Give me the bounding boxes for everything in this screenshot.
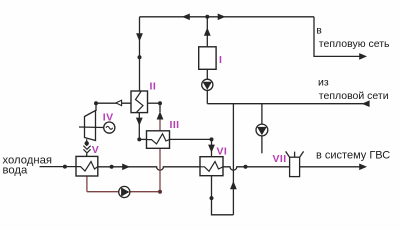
wire main line VI to VII with hop over circulation riser: [223, 167, 290, 170]
node condensate corner: [137, 137, 141, 141]
wire VI bottom loop: [212, 176, 234, 215]
chevron arrow 1 into V: [83, 146, 90, 150]
wire pump1 drop from boiler I to network line corner: [206, 69, 208, 103]
arrow right on main line: [122, 164, 130, 171]
svg-text:вода: вода: [3, 164, 29, 176]
arrow up into riser from III: [157, 111, 164, 119]
chevron arrow 2 into V: [83, 149, 90, 153]
boiler I box: [199, 47, 216, 70]
wire cold water inlet: [40, 166, 77, 168]
node header junction: [205, 15, 209, 19]
wire red condensate bottom run through pump3: [87, 191, 160, 193]
svg-text:V: V: [92, 144, 99, 156]
heat exchanger V coil: [76, 162, 98, 172]
arrow from heating network: [362, 100, 370, 107]
valve open arrow on II left port: [116, 100, 122, 105]
pump P3: [119, 186, 130, 197]
heat exchanger VI coil: [200, 162, 223, 172]
arrow down into II: [136, 33, 143, 41]
heat exchanger III box: [147, 131, 170, 149]
generator circle: [104, 122, 115, 133]
heat exchanger V box: [76, 156, 98, 176]
wire circulation riser x=233.4: [232, 104, 234, 215]
node III to VI corner: [210, 137, 214, 141]
arrow left on header: [182, 14, 190, 21]
heat exchanger II box: [131, 91, 148, 113]
node on II riser: [138, 55, 142, 59]
node cold water inlet: [63, 165, 67, 169]
wire riser from boiler I up to header: [206, 17, 208, 47]
svg-text:III: III: [170, 119, 180, 131]
heat exchanger II coil: [136, 92, 144, 113]
wire from network (line y=103.7): [207, 103, 366, 105]
wire riser from header down to heat exchanger II: [139, 17, 141, 91]
wire red condensate drop from V: [86, 176, 88, 192]
pump P1: [202, 79, 213, 90]
wire riser top segment above III: [159, 103, 161, 112]
svg-text:II: II: [150, 81, 157, 93]
node II right port junction: [158, 101, 162, 105]
pump P2: [256, 124, 268, 136]
wire II condensate drop: [138, 113, 140, 140]
svg-text:тепловую сеть: тепловую сеть: [319, 38, 390, 50]
svg-text:IV: IV: [103, 112, 114, 124]
arrow down into VI: [208, 145, 215, 153]
wire red riser below III: [159, 148, 161, 191]
node before VII: [244, 165, 248, 169]
wire top header line: [140, 16, 315, 18]
svg-text:в: в: [316, 25, 322, 37]
arrow down II condensate: [136, 118, 143, 126]
wire turbine exhaust to V: [86, 139, 88, 156]
wire III right port to VI top: [170, 139, 212, 156]
generator tilde: [106, 126, 113, 129]
wire branch down at x=261.9 through pump2: [261, 104, 263, 154]
heat exchanger III coil: [147, 134, 170, 144]
turbine shaft: [79, 126, 104, 129]
arrow right on header: [218, 14, 226, 21]
wire VII to hot water system outlet: [300, 166, 364, 168]
arrow to heating network: [359, 53, 367, 60]
arrow up from boiler I: [204, 28, 211, 36]
svg-text:в систему ГВС: в систему ГВС: [316, 149, 390, 161]
svg-text:I: I: [219, 54, 222, 66]
wire red riser above III: [159, 119, 161, 131]
arrow up on circulation riser: [230, 181, 237, 189]
wire main line V to VI with hop over red riser: [98, 167, 200, 170]
node steam corner: [94, 101, 98, 105]
wire top-right branch to heating network: [314, 17, 364, 57]
svg-text:VII: VII: [273, 153, 287, 165]
wire condensate into III left port: [139, 138, 146, 140]
wire II right port: [148, 102, 161, 104]
svg-text:тепловой сети: тепловой сети: [319, 90, 389, 102]
node on VI bottom drop: [210, 196, 214, 200]
arrow to hot water system: [359, 164, 367, 171]
node after V: [110, 165, 114, 169]
svg-text:VI: VI: [217, 146, 228, 158]
node turbine exhaust: [85, 141, 89, 145]
heat exchanger VI box: [200, 157, 223, 176]
node red junction: [158, 190, 162, 194]
turbine IV body: [85, 111, 96, 141]
water tap VII: [286, 151, 304, 176]
wire steam inlet into turbine: [95, 103, 97, 111]
wire II left port with steam loop: [96, 102, 131, 104]
svg-text:из: из: [318, 76, 329, 88]
